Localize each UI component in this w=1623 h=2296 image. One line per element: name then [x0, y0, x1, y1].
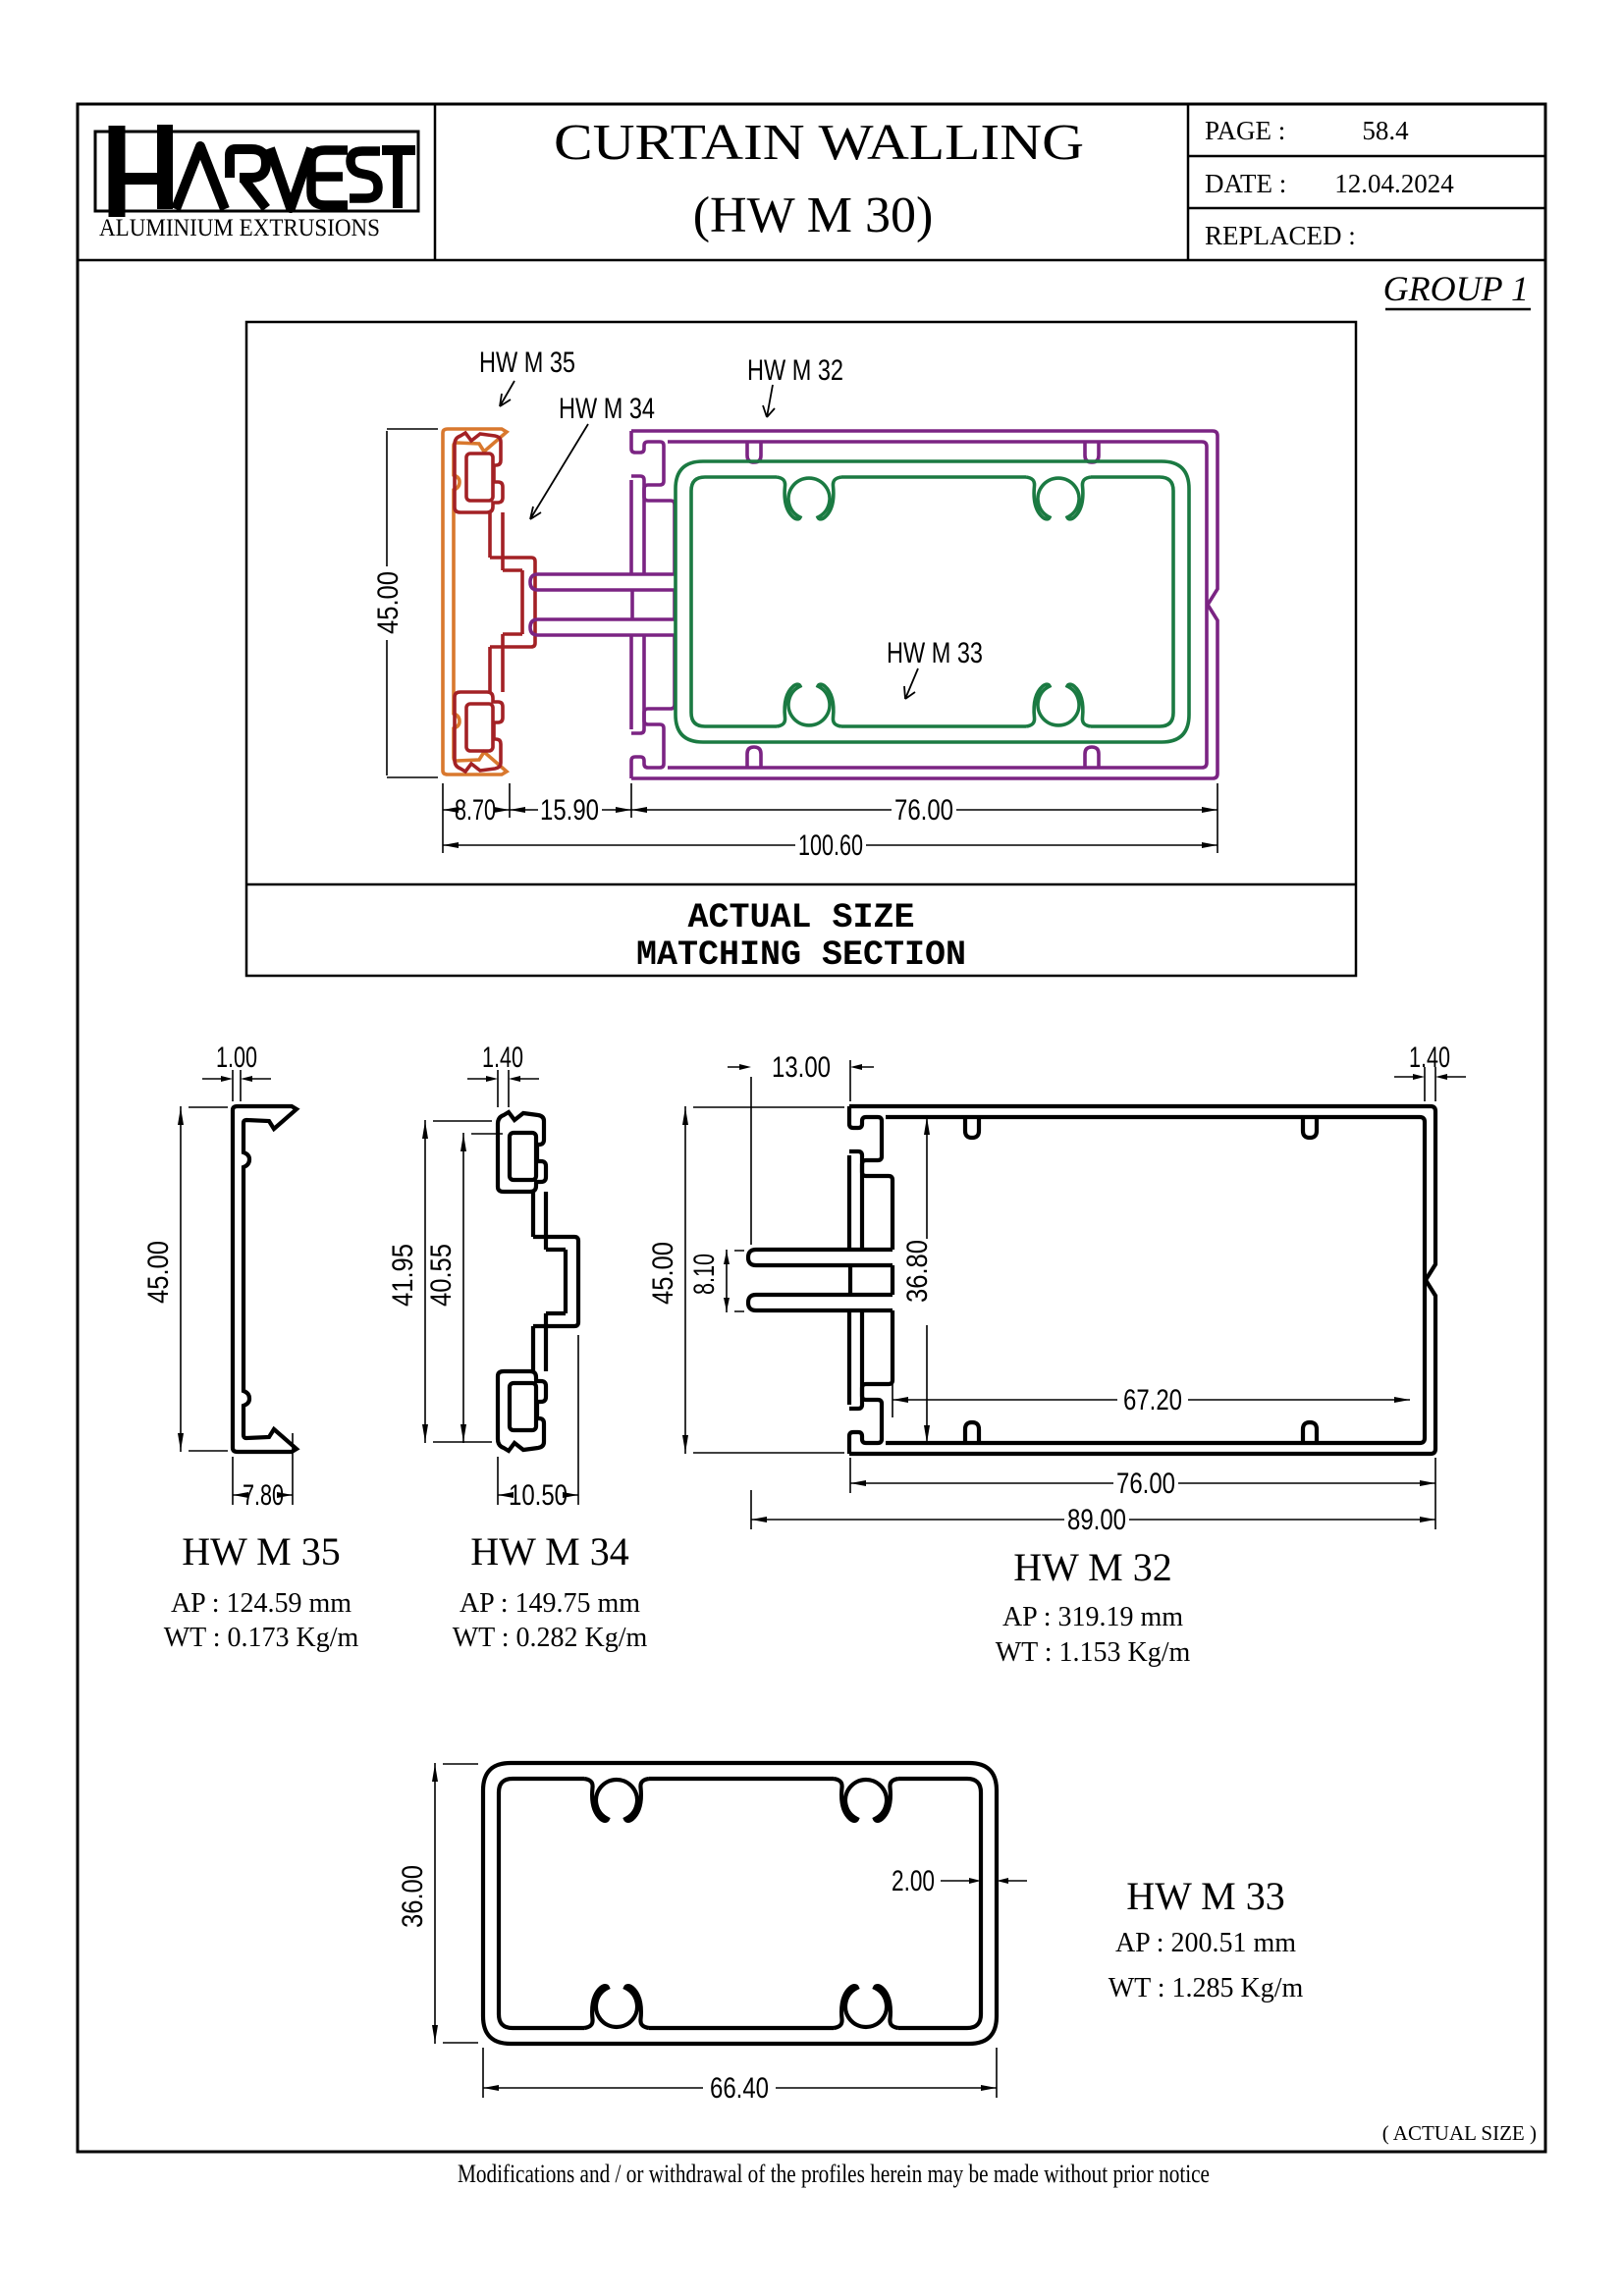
- dim 45.00 extension lines: [387, 429, 438, 777]
- leader HW M 32: [763, 385, 775, 417]
- svg-text:AP : 319.19 mm: AP : 319.19 mm: [1002, 1602, 1183, 1632]
- svg-text:Modifications and / or withdra: Modifications and / or withdrawal of the…: [458, 2160, 1210, 2188]
- svg-text:1.40: 1.40: [482, 1041, 523, 1074]
- svg-text:HW M 32: HW M 32: [1013, 1545, 1171, 1589]
- profile HW M 34 (dark red): [455, 433, 535, 772]
- dim 8.70 line: [443, 809, 510, 811]
- svg-text:WT : 0.173 Kg/m: WT : 0.173 Kg/m: [164, 1623, 359, 1653]
- dim 7.80 lines: [233, 1433, 293, 1505]
- svg-text:HW M 35: HW M 35: [479, 347, 575, 379]
- svg-text:45.00: 45.00: [372, 571, 405, 634]
- svg-text:AP : 124.59 mm: AP : 124.59 mm: [171, 1588, 352, 1619]
- svg-text:ACTUAL SIZE: ACTUAL SIZE: [687, 898, 914, 937]
- dim 36.80 line: [926, 1117, 928, 1443]
- dim 36.00 line: [435, 1763, 478, 2044]
- svg-text:ALUMINIUM EXTRUSIONS: ALUMINIUM EXTRUSIONS: [99, 215, 380, 241]
- profile HW M 34 (black): [498, 1112, 578, 1451]
- info table row line 1: [1188, 155, 1545, 158]
- dim 1.00 arrow tails: [202, 1078, 271, 1080]
- svg-text:66.40: 66.40: [710, 2072, 769, 2105]
- dim 76.00 M32 lines: [850, 1458, 1435, 1529]
- svg-text:13.00: 13.00: [772, 1051, 831, 1084]
- dim 100.60 line: [443, 844, 1217, 846]
- svg-text:CURTAIN WALLING: CURTAIN WALLING: [554, 115, 1084, 171]
- svg-text:100.60: 100.60: [798, 829, 863, 862]
- svg-text:76.00: 76.00: [894, 794, 953, 827]
- info table row line 2: [1188, 207, 1545, 210]
- profile HW M 33 (green): [676, 461, 1189, 742]
- svg-text:10.50: 10.50: [509, 1479, 568, 1512]
- svg-text:36.80: 36.80: [901, 1240, 934, 1303]
- dim row2 extension line left: [442, 818, 444, 853]
- header bottom line: [78, 259, 1545, 262]
- profile HW M 32 (purple): [530, 431, 1217, 778]
- svg-text:MATCHING SECTION: MATCHING SECTION: [636, 935, 966, 975]
- dim 45.00 line M35: [181, 1106, 228, 1452]
- dim 66.40 lines: [483, 2048, 997, 2098]
- svg-text:REPLACED :: REPLACED :: [1205, 221, 1356, 250]
- dim 1.00 ext lines: [233, 1070, 241, 1101]
- dim 41.95 line: [425, 1120, 492, 1443]
- svg-text:AP : 149.75 mm: AP : 149.75 mm: [460, 1588, 640, 1619]
- svg-text:WT : 1.153 Kg/m: WT : 1.153 Kg/m: [996, 1637, 1191, 1668]
- leader HW M 33: [904, 668, 918, 699]
- dim 1.40 M32 ext: [1394, 1067, 1466, 1101]
- svg-text:GROUP 1: GROUP 1: [1383, 269, 1529, 308]
- profile HW M 35 (black): [233, 1106, 297, 1452]
- svg-text:58.4: 58.4: [1362, 116, 1409, 145]
- dim 13.00 ext lines: [728, 1060, 874, 1245]
- dim 45.00 M32 line: [685, 1106, 844, 1454]
- dim 15.90 line: [510, 809, 631, 811]
- header divider right of title: [1187, 104, 1190, 260]
- svg-text:HW M 34: HW M 34: [470, 1529, 628, 1574]
- svg-text:45.00: 45.00: [142, 1241, 175, 1304]
- svg-text:89.00: 89.00: [1067, 1504, 1126, 1536]
- logo box: [95, 132, 418, 211]
- matching section frame: [246, 322, 1356, 976]
- profile HW M 35 (orange): [443, 429, 507, 774]
- svg-text:HW M 34: HW M 34: [559, 393, 655, 425]
- svg-text:PAGE :: PAGE :: [1205, 116, 1285, 145]
- svg-text:15.90: 15.90: [540, 794, 599, 827]
- svg-text:12.04.2024: 12.04.2024: [1334, 169, 1454, 198]
- svg-text:WT : 1.285 Kg/m: WT : 1.285 Kg/m: [1109, 1973, 1304, 2003]
- dim 2.00 lines: [941, 1880, 1027, 1882]
- svg-text:36.00: 36.00: [397, 1865, 429, 1928]
- dim arrows matching: [443, 807, 459, 813]
- dim 1.40 M34 ext: [467, 1070, 539, 1107]
- leader HW M 35: [500, 381, 514, 406]
- svg-text:76.00: 76.00: [1116, 1468, 1175, 1500]
- dim 67.20 line: [893, 1382, 1410, 1417]
- svg-text:WT : 0.282 Kg/m: WT : 0.282 Kg/m: [453, 1623, 648, 1653]
- svg-text:1.40: 1.40: [1409, 1041, 1450, 1074]
- svg-text:( ACTUAL SIZE ): ( ACTUAL SIZE ): [1382, 2121, 1537, 2145]
- dim 10.50 lines: [498, 1335, 578, 1505]
- svg-text:41.95: 41.95: [387, 1244, 419, 1307]
- svg-text:67.20: 67.20: [1123, 1384, 1182, 1416]
- profile HW M 33 (black): [483, 1763, 997, 2044]
- svg-text:40.55: 40.55: [425, 1244, 458, 1307]
- svg-text:HW M 33: HW M 33: [1126, 1874, 1284, 1918]
- svg-text:45.00: 45.00: [647, 1242, 679, 1305]
- dim 76.00 line: [631, 809, 1217, 811]
- svg-text:8.70: 8.70: [455, 794, 496, 827]
- svg-text:(HW M 30): (HW M 30): [693, 187, 934, 243]
- svg-text:2.00: 2.00: [892, 1865, 935, 1897]
- dim 89.00 lines: [751, 1490, 1435, 1529]
- svg-text:HW M 35: HW M 35: [182, 1529, 340, 1574]
- dim 8.10 line: [727, 1250, 744, 1312]
- svg-text:AP : 200.51 mm: AP : 200.51 mm: [1115, 1928, 1296, 1958]
- profile HW M 32 (black): [748, 1106, 1435, 1454]
- dim row1 extension lines: [443, 783, 1217, 853]
- logo wordmark HARVEST: [117, 125, 415, 217]
- header divider left of title: [434, 104, 437, 260]
- dim 40.55 line: [463, 1133, 503, 1443]
- svg-text:1.00: 1.00: [216, 1041, 257, 1074]
- svg-text:HW M 32: HW M 32: [747, 354, 843, 387]
- svg-text:8.10: 8.10: [688, 1254, 721, 1295]
- leader HW M 34: [530, 424, 588, 519]
- svg-text:DATE :: DATE :: [1205, 169, 1286, 198]
- svg-text:7.80: 7.80: [243, 1479, 284, 1512]
- svg-text:HW M 33: HW M 33: [887, 637, 983, 669]
